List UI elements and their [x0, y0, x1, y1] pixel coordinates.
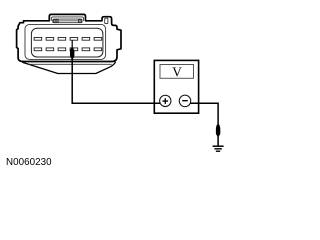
- pins bottom row: [34, 48, 102, 51]
- pin B3: [58, 48, 66, 51]
- test probe tip at ground: [216, 125, 220, 138]
- pin A5: [82, 38, 90, 41]
- wire from voltmeter minus terminal to ground: [190, 103, 219, 146]
- pin A4: [70, 38, 78, 41]
- voltmeter minus terminal: [179, 95, 191, 107]
- pins top row: [34, 38, 102, 41]
- voltmeter display: [160, 65, 194, 79]
- latch slot strip: [53, 19, 82, 23]
- pin B1: [34, 48, 42, 51]
- latch strip mid line: [53, 20, 82, 22]
- connector rear face edge line: [29, 63, 112, 65]
- connector top latch tab inner outline: [51, 17, 83, 21]
- pin B2: [46, 48, 54, 51]
- pin cavity outline: [31, 28, 103, 57]
- latch slot left detail: [54, 20, 59, 22]
- figure number caption: [6, 157, 52, 168]
- probe lead into pin A4: [71, 40, 73, 47]
- test probe tip at connector: [70, 46, 74, 58]
- latch slot right detail: [78, 20, 81, 22]
- connector rear skirt (trapezoid): [22, 62, 115, 74]
- voltmeter body: [154, 60, 198, 113]
- connector inner shell outline: [25, 24, 106, 59]
- pin B6: [94, 48, 102, 51]
- pin B5: [82, 48, 90, 51]
- right ear slot: [105, 18, 108, 23]
- pin B4: [70, 48, 78, 51]
- svg-text:V: V: [172, 65, 182, 80]
- pin A2: [46, 38, 54, 41]
- wire from probe to voltmeter plus terminal: [72, 58, 161, 104]
- pin A1: [34, 38, 42, 41]
- voltmeter plus terminal: [160, 95, 171, 106]
- pin A3: [58, 38, 66, 41]
- pin A6: [94, 38, 102, 41]
- connector outer shell outline: [17, 14, 121, 61]
- ground symbol: [213, 146, 224, 151]
